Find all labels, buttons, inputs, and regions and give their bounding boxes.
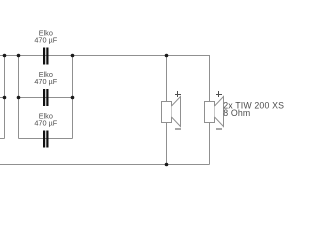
- svg-text:470 µF: 470 µF: [34, 77, 57, 86]
- svg-text:470 µF: 470 µF: [34, 35, 57, 44]
- svg-text:8 Ohm: 8 Ohm: [223, 108, 250, 118]
- svg-text:470 µF: 470 µF: [34, 118, 57, 127]
